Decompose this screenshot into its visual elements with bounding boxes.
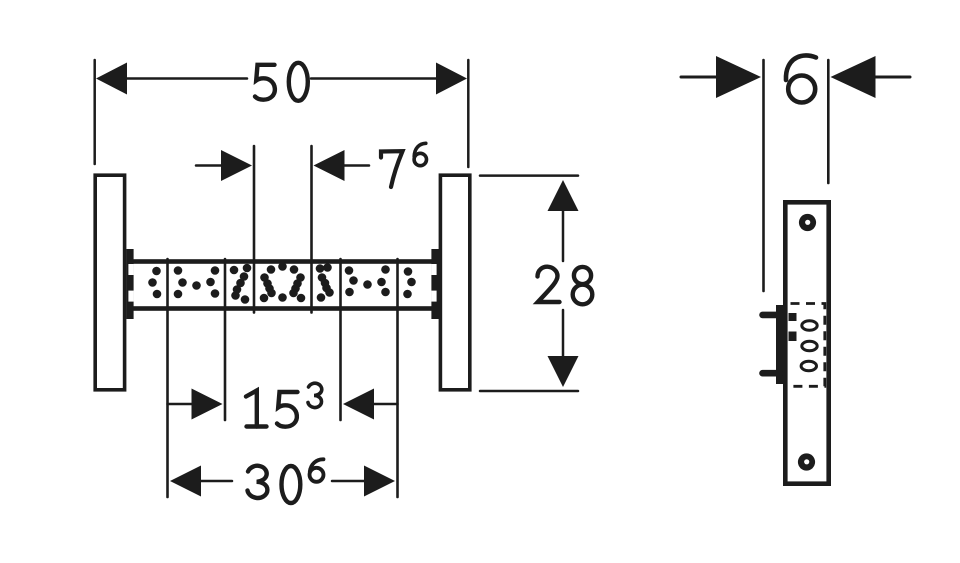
dim 15.3 tail left [168,403,197,406]
dimension text 28 [538,267,593,305]
dim 50 line left segment [124,77,247,80]
dim 15.3 arrow left (pointing right) [192,389,223,420]
dim 30.6 extension line left [166,259,169,497]
dim 7.6 extension line left [253,146,256,313]
dim 30.6 arrow left (pointing left) [170,466,201,497]
dim 15.3 extension line left [224,259,227,420]
top screw hole [799,214,816,231]
dim 28 extension line top [480,174,578,177]
dimension text 30^6 [248,459,324,503]
fastening clip [776,305,797,384]
dim 6 arrow right (pointing left) [831,56,876,98]
side view plate [785,202,828,483]
dim 50 arrow right [436,63,467,95]
dim 6 tail right [874,76,910,79]
dim 50 arrow left [96,63,127,95]
dim 28 arrow up [548,180,579,211]
dim 50 line right segment [311,77,440,80]
dim 6 extension line right [827,60,830,183]
dim 28 extension line bottom [480,390,578,393]
bottom screw hole [798,453,815,470]
dim 15.3 extension line right [339,259,342,420]
left castellated bar end [126,249,133,319]
right flange plate [440,175,469,390]
side view numeral 6 [786,55,816,102]
dim 30.6 tail left [200,480,232,483]
dim 30.6 arrow right (pointing right) [364,466,395,497]
right castellated bar end [431,249,440,319]
dim 50 extension line left [93,60,96,164]
dimension text 7^6 [381,143,426,187]
dim 28 line lower segment [562,310,565,358]
dim 6 arrow left (pointing right) [716,56,761,98]
dim 30.6 extension line right [396,259,399,497]
dashed insert outline [791,304,825,387]
dim 6 extension line left [762,60,765,291]
dim 7.6 extension line right [310,146,313,313]
dim 28 arrow down [548,356,579,387]
dim 28 line upper segment [562,208,565,261]
dim 7.6 tail right [341,164,369,167]
dim 7.6 arrow right (pointing left) [314,150,345,181]
rail bar bottom border [133,306,432,311]
dim 50 extension line right [467,60,470,167]
side view dim 6 [681,60,910,291]
dim 15.3 tail right [368,403,398,406]
dim 7.6 tail left [196,164,226,167]
dim 30.6 tail right [332,480,366,483]
dimension text 50 [255,63,308,101]
left flange plate [95,175,124,390]
three slots [801,321,817,371]
dim 7.6 arrow left (pointing right) [221,150,252,181]
perforation dots [148,262,416,304]
rail bar top border [133,259,432,264]
dimension text 15^3 [246,383,322,426]
dim 6 tail left [681,76,717,79]
dim 15.3 arrow right (pointing left) [343,389,374,420]
